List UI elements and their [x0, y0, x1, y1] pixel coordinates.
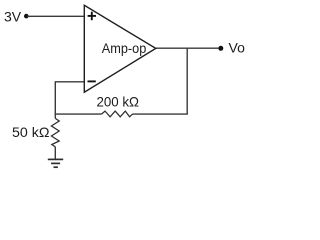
svg-text:200 kΩ: 200 kΩ	[97, 93, 140, 109]
svg-text:Amp-op: Amp-op	[102, 40, 147, 56]
svg-text:3V: 3V	[4, 8, 22, 24]
svg-text:Vo: Vo	[229, 40, 246, 56]
svg-text:50 kΩ: 50 kΩ	[12, 124, 50, 140]
